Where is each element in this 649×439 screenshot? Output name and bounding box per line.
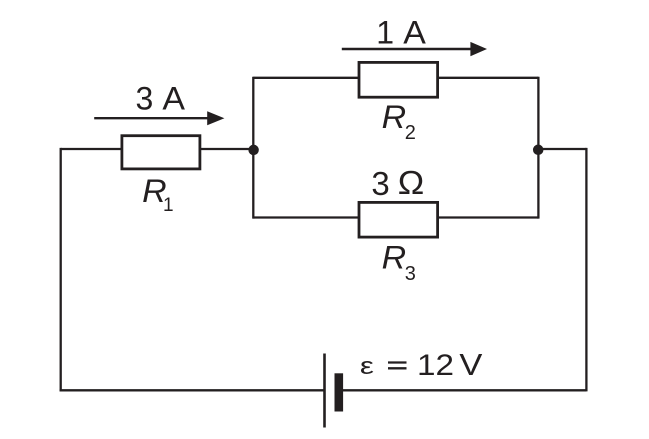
wire: R1 branch horizontal (node A to left side) — [61, 148, 254, 150]
svg-text:R: R — [382, 240, 407, 276]
resistor R1 — [122, 136, 200, 169]
resistor R2 — [359, 62, 438, 97]
svg-text:R: R — [382, 99, 407, 135]
battery: short thick plate (negative terminal) — [335, 373, 344, 411]
wire: bottom branch horizontal (R3 branch) — [253, 216, 538, 218]
svg-text:3: 3 — [371, 165, 389, 202]
svg-text:3: 3 — [405, 263, 416, 285]
wire: parallel loop left vertical — [252, 77, 254, 219]
svg-text:V: V — [459, 347, 482, 382]
svg-text:2: 2 — [405, 122, 416, 144]
svg-text:3: 3 — [136, 81, 154, 117]
svg-text:A: A — [403, 14, 426, 50]
svg-text:12: 12 — [417, 349, 454, 382]
svg-text:ε: ε — [360, 353, 374, 380]
current arrow 3 A head — [207, 111, 224, 125]
wire: parallel loop right vertical — [537, 77, 539, 219]
label: equals sign lower bar — [388, 367, 407, 369]
svg-text:A: A — [162, 81, 185, 117]
wire: top branch horizontal (R2 branch) — [253, 77, 538, 79]
resistor R3 — [359, 202, 438, 237]
current arrow 3 A shaft — [94, 117, 209, 119]
wire: right vertical — [585, 148, 587, 392]
svg-text:1: 1 — [376, 14, 394, 50]
wire: left vertical — [60, 148, 62, 392]
svg-text:Ω: Ω — [398, 164, 425, 201]
svg-text:1: 1 — [163, 195, 174, 216]
node A (junction dot left) — [248, 145, 259, 156]
wire: bottom horizontal right (battery positive plate to right side) — [343, 389, 586, 391]
current arrow 1 A head — [470, 42, 487, 56]
node B (junction dot right) — [533, 145, 544, 156]
wire: bottom horizontal left (to battery negative plate) — [60, 389, 325, 391]
battery: long thin plate (positive terminal) — [323, 354, 326, 428]
label: equals sign upper bar — [388, 361, 407, 363]
wire: stub from node B to right vertical — [538, 148, 586, 150]
current arrow 1 A shaft — [342, 48, 472, 50]
